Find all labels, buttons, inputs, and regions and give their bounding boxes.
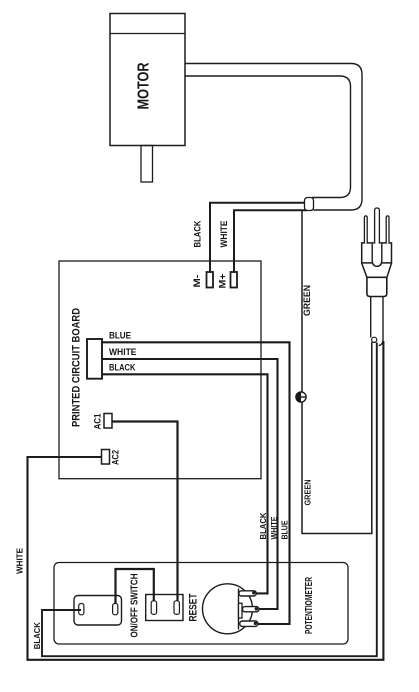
svg-text:BLUE: BLUE (109, 331, 131, 341)
wire AC1 to RESET (112, 422, 178, 602)
svg-text:BLACK: BLACK (193, 220, 203, 247)
svg-text:BLACK: BLACK (258, 512, 268, 540)
svg-text:M-: M- (192, 275, 203, 288)
reset breaker body (146, 595, 183, 621)
pcb connector block (87, 339, 102, 379)
plug cord jacket (371, 297, 383, 346)
svg-text:BLACK: BLACK (32, 621, 42, 649)
motor shaft (141, 146, 153, 183)
motor cable jacket inner line (185, 76, 351, 198)
svg-text:ON/OFF SWITCH: ON/OFF SWITCH (130, 574, 141, 638)
svg-text:GREEN: GREEN (302, 285, 312, 316)
svg-text:WHITE: WHITE (15, 548, 25, 574)
potentiometer R1 body (203, 584, 253, 634)
reset left terminal (151, 601, 156, 615)
plug ground slot cell (372, 244, 382, 267)
wire WHITE motor lead (234, 210, 307, 272)
svg-text:WHITE: WHITE (109, 347, 137, 357)
printed circuit board box (59, 261, 261, 479)
on/off switch SW1 body (74, 596, 122, 626)
switch right terminal (113, 604, 118, 615)
motor cable end cap (305, 198, 314, 211)
plug P1 (362, 208, 392, 297)
pot bottom terminal (240, 621, 258, 626)
svg-text:AC2: AC2 (111, 450, 121, 465)
svg-text:WHITE: WHITE (269, 516, 279, 539)
switch left terminal (79, 604, 84, 615)
motor cable jacket outer line (185, 64, 362, 211)
junction splice on green wire (296, 392, 306, 402)
wire WHITE (102, 359, 278, 609)
reset right terminal (174, 601, 179, 615)
svg-text:GREEN: GREEN (303, 480, 313, 506)
terminal M+ (231, 272, 238, 288)
plug left prong (364, 216, 367, 244)
svg-text:PRINTED CIRCUIT BOARD: PRINTED CIRCUIT BOARD (71, 308, 83, 427)
wire BLACK motor lead (210, 203, 307, 272)
wire WHITE long (AC2 to cord) (28, 341, 384, 660)
svg-text:AC1: AC1 (93, 414, 103, 430)
plug right prong (386, 216, 389, 244)
control box (54, 563, 348, 645)
terminal AC1 (104, 414, 112, 429)
svg-text:WHITE: WHITE (219, 221, 229, 248)
svg-text:M+: M+ (218, 273, 229, 288)
svg-text:MOTOR: MOTOR (136, 62, 153, 109)
plug head (362, 243, 392, 263)
plug neck (367, 277, 387, 296)
wire BLUE (102, 342, 290, 624)
pot middle terminal (243, 607, 259, 612)
wire BLACK (102, 374, 268, 593)
plug center ground prong (375, 208, 380, 244)
svg-text:BLUE: BLUE (280, 520, 290, 539)
svg-text:BLACK: BLACK (109, 363, 136, 373)
svg-text:RESET: RESET (188, 593, 200, 621)
terminal AC2 (102, 450, 110, 465)
pot top terminal (239, 591, 256, 596)
plug taper (362, 263, 392, 277)
wire BLACK long (switch to cord) (42, 343, 377, 657)
terminal M- (207, 272, 214, 288)
wire switch to reset (116, 569, 154, 604)
svg-text:POTENTIOMETER: POTENTIOMETER (304, 576, 315, 634)
cord green exit bump (372, 337, 377, 342)
wire GREEN (302, 211, 372, 534)
motor M1 body (110, 14, 185, 146)
